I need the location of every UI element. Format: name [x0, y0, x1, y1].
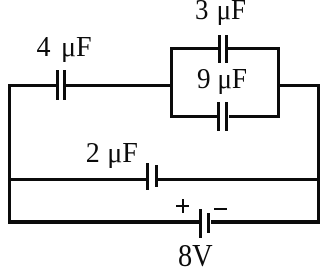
wire: bottom horizontal right segment (battery minus plate to right rail)	[211, 220, 320, 225]
wire: stub from box right edge to right rail	[278, 84, 320, 87]
wire: bottom horizontal left segment (left rail to battery plus plate)	[8, 220, 199, 225]
label 4 uF	[37, 34, 92, 62]
battery plus sign vertical stroke	[182, 199, 184, 213]
capacitor C3 9uF left plate	[217, 102, 220, 131]
capacitor C3 9uF right plate	[225, 102, 228, 131]
battery plus sign horizontal stroke	[176, 205, 190, 207]
wire: middle horizontal right segment (C4 right plate to right rail)	[158, 178, 320, 181]
battery minus sign	[214, 208, 227, 210]
wire: parallel box left edge	[170, 47, 173, 118]
wire: box bottom edge left segment	[170, 115, 218, 118]
capacitor C4 2uF left plate	[146, 163, 149, 191]
wire: parallel box right edge	[277, 47, 280, 118]
wire: left vertical rail	[8, 84, 11, 224]
battery B1 negative plate (short)	[207, 213, 210, 233]
capacitor C1 4uF right plate	[63, 70, 66, 100]
capacitor C2 3uF right plate	[225, 35, 228, 63]
capacitor C4 2uF right plate	[155, 165, 158, 187]
label 9 uF	[197, 66, 247, 94]
wire: top-left horizontal (left rail to C1 left plate)	[8, 84, 57, 87]
label 3 uF	[195, 0, 246, 25]
wire: right vertical rail	[317, 84, 320, 224]
wire: box top edge left segment	[170, 47, 219, 50]
wire: middle horizontal left segment (left rail to C4 left plate)	[8, 178, 146, 181]
wire: box top edge right segment	[228, 47, 280, 50]
capacitor C2 3uF left plate	[218, 35, 221, 63]
label 2 uF	[86, 140, 138, 168]
battery B1 positive plate (long)	[199, 209, 202, 238]
label 8V	[178, 242, 213, 268]
capacitor C1 4uF left plate	[56, 70, 59, 100]
wire: box bottom edge right segment	[229, 115, 280, 118]
wire: top horizontal (C1 right plate to parallel box left edge)	[66, 84, 173, 87]
